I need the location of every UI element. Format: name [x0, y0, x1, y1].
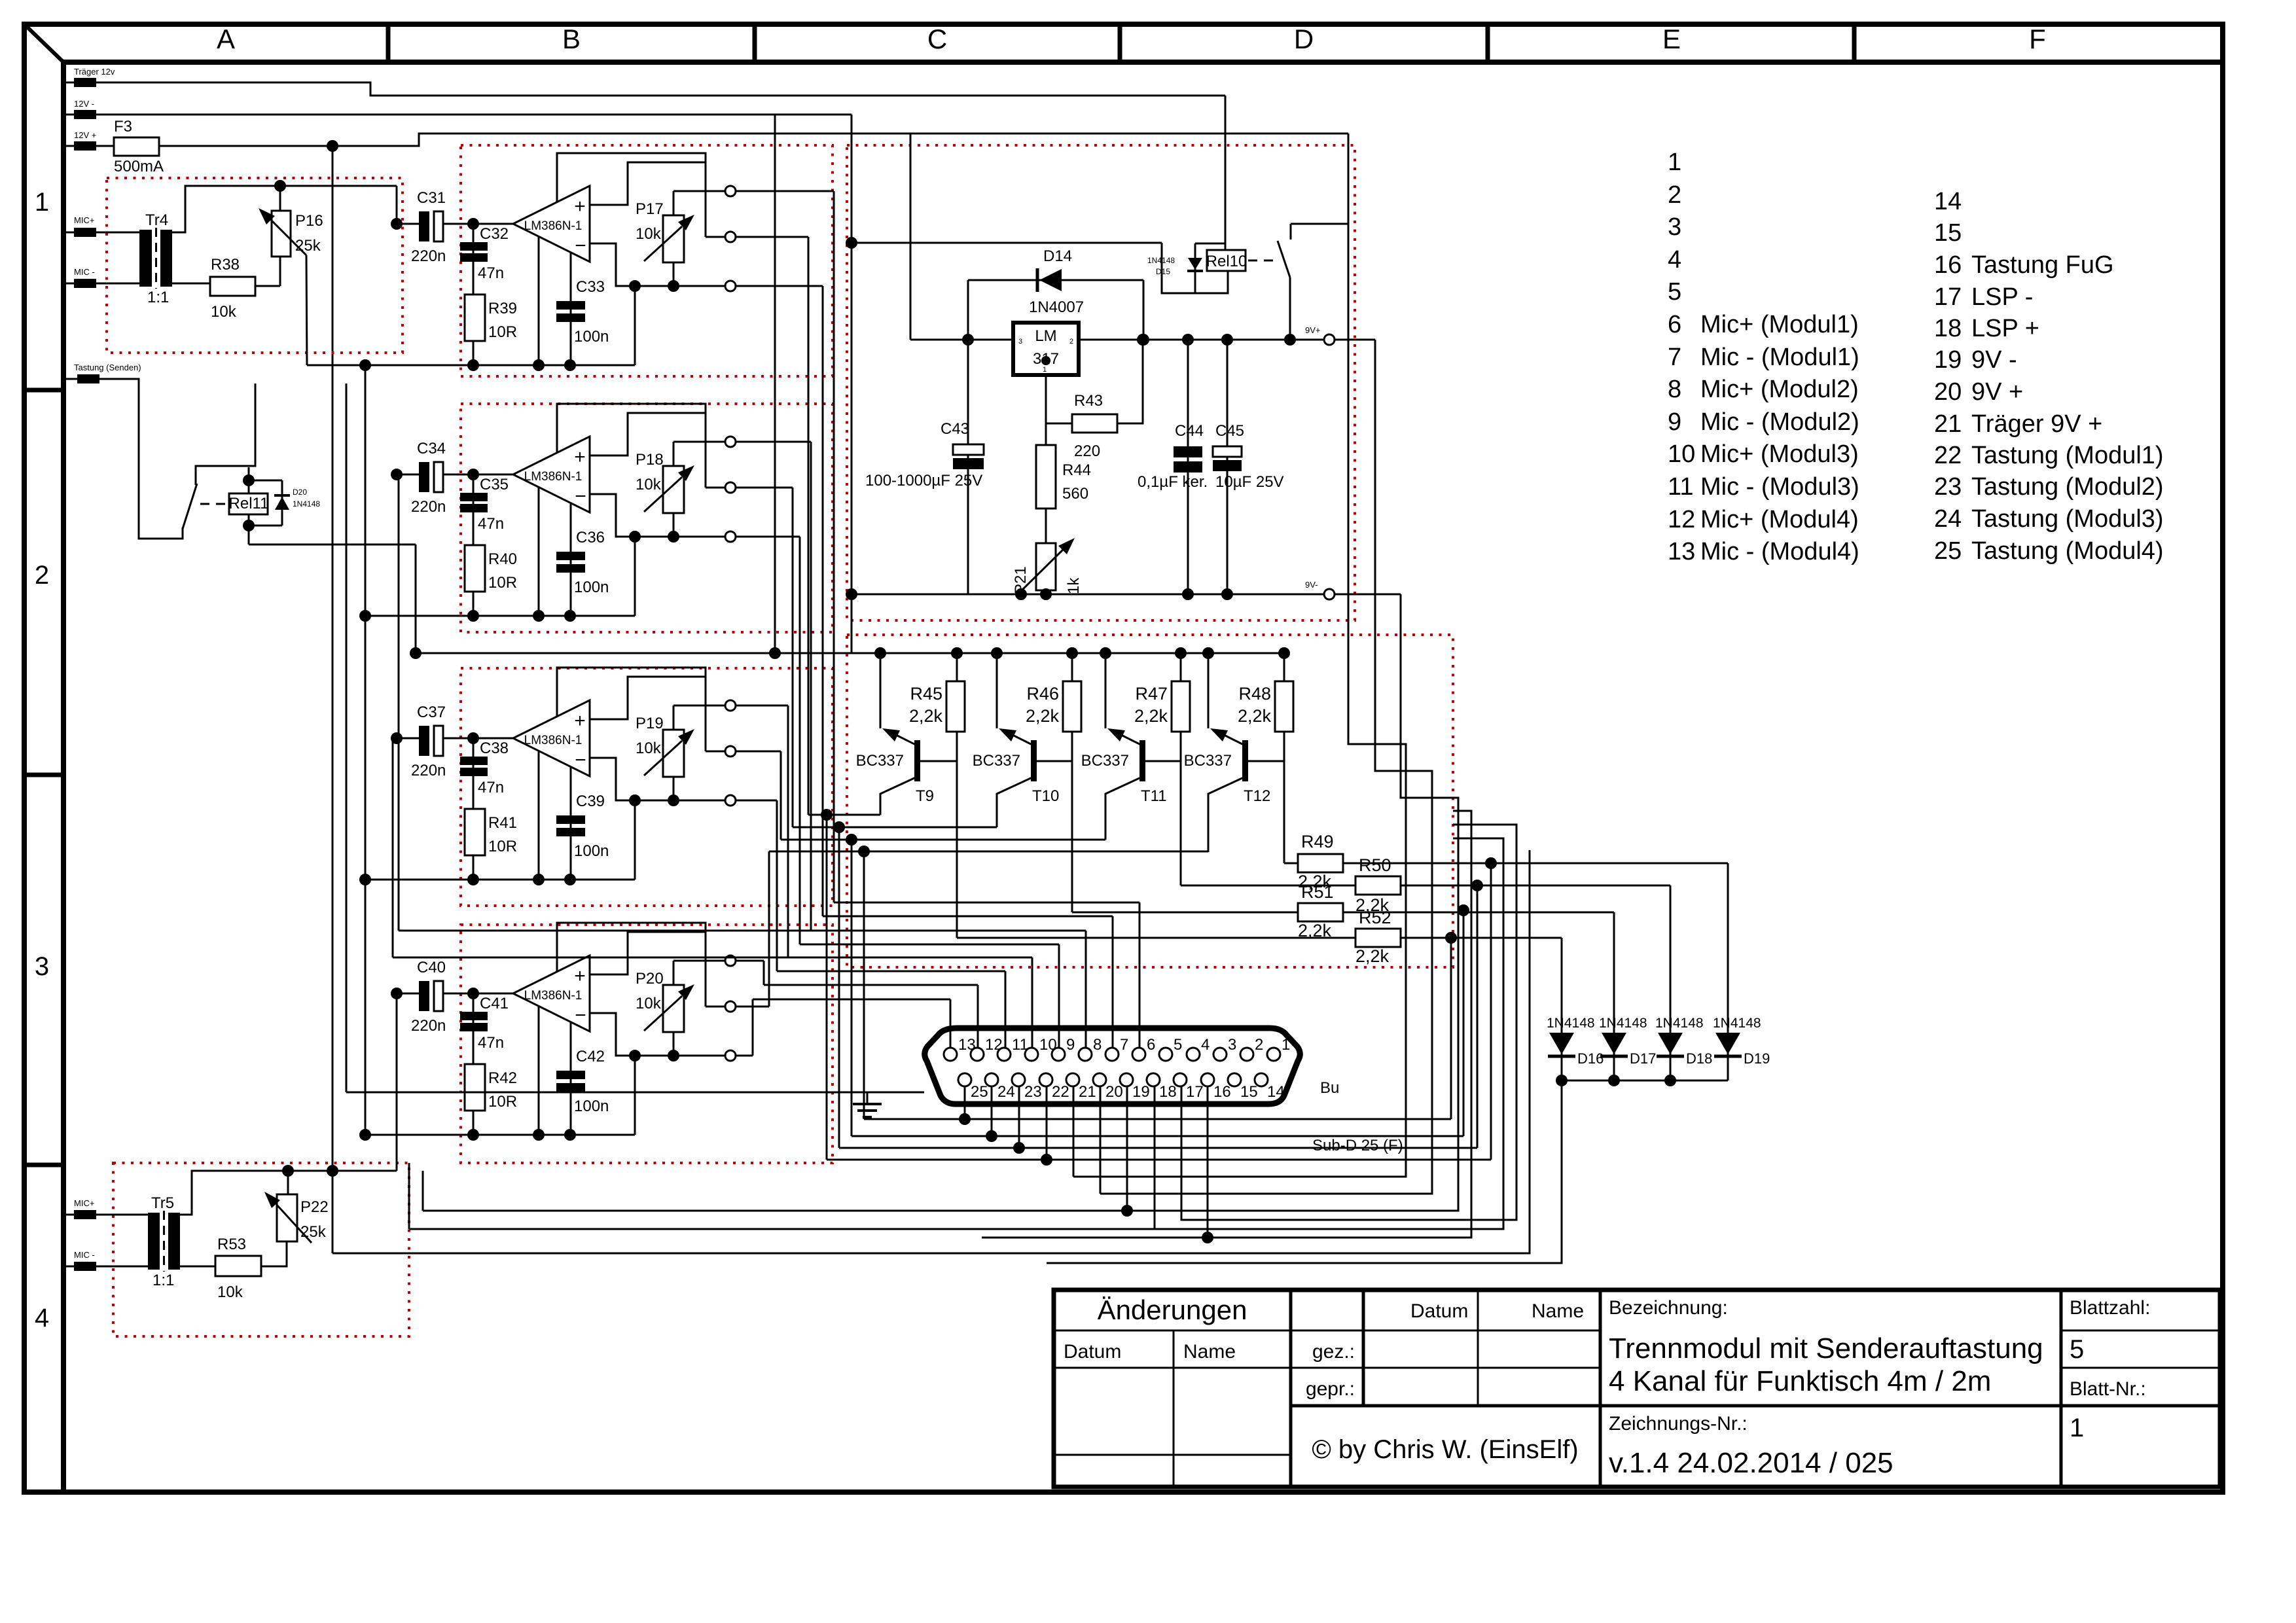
svg-text:Rel10: Rel10 [1206, 253, 1247, 270]
svg-text:D17: D17 [1630, 1050, 1656, 1067]
svg-text:24: 24 [1934, 505, 1962, 533]
drawing frame inner border (label band) [63, 60, 2223, 65]
wire fan output 5 vertical [787, 705, 789, 957]
svg-text:14: 14 [1934, 188, 1962, 215]
capacitor C42 [556, 1071, 585, 1079]
wire D15 bottom [1194, 266, 1196, 293]
svg-text:Bezeichnung:: Bezeichnung: [1609, 1297, 1728, 1319]
svg-text:10: 10 [1668, 440, 1695, 468]
emitter arrow T9 [897, 736, 916, 745]
svg-text:Name: Name [1532, 1300, 1584, 1322]
svg-text:9V +: 9V + [1971, 378, 2023, 406]
wire rail to R45 [956, 653, 958, 681]
svg-text:1: 1 [1282, 1036, 1290, 1054]
svg-text:Mic+ (Modul3): Mic+ (Modul3) [1700, 440, 1859, 468]
row divider 1 [24, 773, 63, 777]
node Rel11 coil bottom [243, 520, 255, 531]
svg-text:23: 23 [1024, 1083, 1042, 1101]
wire C37 to amp input [443, 738, 513, 740]
diode D16 1N4148 [1561, 938, 1563, 1080]
svg-text:P22: P22 [300, 1198, 329, 1216]
red dotted box amplifier module 3 [461, 668, 833, 906]
svg-text:1: 1 [1668, 149, 1681, 176]
wire fan output 7 vertical [763, 961, 765, 985]
svg-text:12V +: 12V + [74, 130, 96, 140]
wire fan output 4 pin drop [1058, 944, 1060, 1048]
wire P20 top lead [673, 961, 675, 985]
wire C44 vertical [1187, 340, 1189, 594]
diode D19 1N4148 [1727, 863, 1729, 1080]
svg-text:21: 21 [1079, 1083, 1096, 1101]
svg-text:4: 4 [35, 1304, 49, 1332]
svg-text:24: 24 [997, 1083, 1015, 1101]
wire pin20 vertical [1100, 1086, 1102, 1194]
wire R49 to D19 [1343, 863, 1728, 865]
node C45 bottom [1221, 588, 1233, 600]
wire Tr4 secondary top [172, 186, 397, 232]
wire module4 output B vertical [705, 961, 707, 1007]
wire fan output 1 horizontal [736, 190, 834, 192]
pin 24 Sub-D [985, 1073, 998, 1086]
svg-text:Trennmodul mit Senderauftastun: Trennmodul mit Senderauftastung [1609, 1332, 2043, 1364]
wire module4 minus line [590, 1013, 725, 1056]
capacitor C35 [460, 493, 488, 501]
pin 11 Sub-D [997, 1048, 1011, 1061]
wire rail to R48 [1283, 653, 1285, 681]
terminal 9V- [1324, 589, 1335, 599]
svg-text:P17: P17 [636, 200, 664, 218]
pin 16 Sub-D [1201, 1073, 1214, 1086]
wire Rel11 lever bottom [182, 527, 184, 539]
pin 21 Sub-D [1066, 1073, 1079, 1086]
svg-text:Rel11: Rel11 [229, 495, 269, 512]
wire module4 top feedback [557, 923, 706, 972]
wire R50 to D18 [1401, 885, 1670, 887]
wire left bus 625 vertical [408, 1163, 410, 1229]
svg-text:LM386N-1: LM386N-1 [524, 470, 583, 484]
wire module4 plus input [590, 932, 706, 974]
wire transistor supply rail [852, 652, 1284, 654]
node rail module1 x823 [533, 359, 545, 371]
wire P18 bottom lead [673, 513, 675, 537]
svg-text:47n: 47n [478, 1034, 504, 1052]
wire module2 C-branch vertical [473, 474, 475, 616]
node rail R46 [1066, 647, 1078, 659]
wire fan output 7 to pin [764, 984, 978, 986]
svg-text:R39: R39 [488, 300, 517, 317]
fuse F3 [114, 137, 159, 156]
wire Traeger 9V+ to pin 21 [1073, 224, 1406, 1177]
svg-text:B: B [562, 24, 581, 54]
wire module2 ground rail [365, 615, 635, 617]
wire R52 to D16 [1401, 937, 1562, 939]
svg-text:BC337: BC337 [856, 752, 904, 770]
svg-text:gez.:: gez.: [1312, 1341, 1355, 1363]
svg-text:Zeichnungs-Nr.:: Zeichnungs-Nr.: [1609, 1413, 1748, 1435]
terminal MIC- (row1) [74, 279, 96, 288]
svg-text:R43: R43 [1074, 392, 1103, 410]
wire fan output 4 horizontal [736, 536, 800, 538]
svg-text:Mic - (Modul1): Mic - (Modul1) [1700, 344, 1859, 371]
node rail module1 x871 [564, 359, 576, 371]
svg-text:Blatt-Nr.:: Blatt-Nr.: [2070, 1378, 2146, 1400]
potentiometer P21 [1036, 543, 1056, 590]
svg-text:23: 23 [1934, 473, 1962, 501]
wire R46 to base [1071, 732, 1073, 761]
wire bottom long run x508 [332, 850, 1530, 1253]
svg-text:T11: T11 [1141, 787, 1167, 805]
wire C36 vertical [570, 503, 572, 616]
node R43/9V+ [1137, 334, 1149, 346]
wire fan output 3 horizontal [736, 441, 811, 443]
resistor R38 [210, 277, 255, 296]
wire Tastung module2 bottom run [839, 1147, 1477, 1149]
svg-text:F3: F3 [114, 118, 132, 135]
svg-text:1k: 1k [1065, 577, 1083, 594]
wire fan output 4 to pin [800, 944, 1059, 946]
diode D15 1N4148 [1194, 243, 1196, 260]
svg-text:100n: 100n [574, 1097, 609, 1115]
wire R47 to base [1180, 732, 1182, 761]
wire fan output 2 horizontal [736, 285, 823, 287]
svg-text:2,2k: 2,2k [1026, 706, 1060, 726]
svg-text:16: 16 [1213, 1083, 1231, 1101]
wire T12 base line down to R49 [1283, 761, 1285, 863]
connector module4 pin A [725, 955, 736, 966]
svg-text:C31: C31 [417, 189, 446, 207]
node Tastung module2 [833, 821, 845, 833]
wire P17 top lead [673, 191, 675, 215]
wire module1 minus to rail [634, 286, 636, 365]
wire fan output 8 vertical [752, 999, 754, 1056]
connector module1 pin C [725, 281, 736, 291]
svg-text:16: 16 [1934, 251, 1962, 279]
node pin19 run [1121, 1205, 1133, 1217]
resistor R45 2,2k [946, 681, 965, 732]
resistor R40 [465, 545, 485, 592]
wire collector T11 [1105, 777, 1141, 840]
wire pin23 vertical [1018, 1086, 1020, 1148]
svg-text:−: − [575, 486, 586, 507]
wire 12V- vertical feed [851, 115, 853, 653]
diode D18 1N4148 [1670, 885, 1672, 1080]
svg-text:C42: C42 [576, 1048, 605, 1065]
svg-text:Tastung (Modul4): Tastung (Modul4) [1971, 537, 2164, 565]
resistor R53 [215, 1256, 261, 1276]
wire module2 output A [673, 441, 725, 443]
wire up to R49 line [1490, 863, 1492, 1160]
svg-text:25: 25 [1934, 537, 1962, 565]
terminal Träger 12v [74, 78, 96, 87]
svg-text:8: 8 [1668, 376, 1681, 403]
node diode bus [1664, 1075, 1676, 1086]
svg-text:47n: 47n [478, 779, 504, 796]
wire pin21 vertical [1073, 1086, 1075, 1177]
svg-text:7: 7 [1120, 1036, 1128, 1054]
node rail R47 [1175, 647, 1187, 659]
wire to R50 [1181, 885, 1355, 887]
svg-text:220n: 220n [411, 1017, 446, 1035]
wire R44 to P21 [1045, 508, 1047, 543]
pin 10 Sub-D [1025, 1048, 1038, 1061]
wire rail to R47 [1180, 653, 1182, 681]
wire module1 amp pin to rail [538, 237, 540, 365]
node Tastung module4 [858, 846, 870, 857]
emitter arrow T12 [1225, 736, 1244, 745]
switch lever Rel11 [183, 484, 197, 529]
wire P16 bottom lead [279, 257, 281, 286]
wire module2 pinB vertical [792, 488, 794, 827]
wire emitter T9 to rail [880, 653, 882, 728]
wire MIC- to Tr4 [63, 283, 141, 285]
wire module1 ground rail [307, 365, 635, 366]
wire fan output 1 vertical [833, 191, 835, 902]
wire module1 pinB out [736, 236, 808, 238]
svg-text:2,2k: 2,2k [1134, 706, 1168, 726]
wire module2 minus line [590, 494, 725, 537]
svg-text:10R: 10R [488, 838, 517, 855]
node rail module3 x558 [359, 874, 371, 885]
svg-text:C34: C34 [417, 440, 446, 457]
relay Rel11 [229, 493, 268, 514]
pin 23 Sub-D [1012, 1073, 1025, 1086]
capacitor C32 [460, 242, 488, 251]
wire base T10 [1037, 760, 1072, 762]
pin 6 Sub-D [1132, 1048, 1145, 1061]
wire Mic+ Modul2 horizontal [399, 930, 811, 932]
wire module1 output A [673, 190, 725, 192]
svg-text:3: 3 [35, 952, 49, 981]
pin 4 Sub-D [1187, 1048, 1200, 1061]
wire Tastung module3 bottom run [852, 1135, 1463, 1137]
wire rail bus vertical [365, 365, 367, 1135]
node module3 minus junction 2 [668, 794, 679, 806]
svg-text:9V+: 9V+ [1305, 325, 1321, 335]
svg-text:+: + [574, 710, 586, 732]
pin dot LM317 [1041, 356, 1050, 365]
svg-text:−: − [575, 1005, 586, 1026]
diode D20 1N4148 [281, 480, 283, 526]
svg-text:Änderungen: Änderungen [1098, 1294, 1247, 1325]
wire module2 pinB out [736, 487, 793, 489]
svg-text:220n: 220n [411, 498, 446, 516]
svg-text:Datum: Datum [1410, 1300, 1468, 1322]
node P21 bottom [1040, 588, 1052, 600]
wire collector T12 [1208, 777, 1244, 852]
wire module1 output B vertical [705, 191, 707, 237]
capacitor C38 [460, 757, 488, 765]
svg-text:10k: 10k [636, 476, 662, 493]
svg-text:Bu: Bu [1320, 1079, 1339, 1097]
svg-text:Mic+ (Modul4): Mic+ (Modul4) [1700, 506, 1859, 533]
capacitor C39 [556, 815, 585, 824]
wire fan output 8 to pin [753, 999, 950, 1001]
wire up to R51 line [1463, 910, 1465, 1136]
wire pin24 vertical [991, 1086, 993, 1136]
wire to R52 [957, 937, 1355, 939]
wire D14 branch [968, 279, 1143, 281]
transistor T10 BC337 [1031, 740, 1037, 781]
wire switch output to 9V+ node [1289, 277, 1291, 340]
wire module3 C-branch vertical [473, 738, 475, 880]
potentiometer P22 [277, 1194, 297, 1241]
svg-text:5: 5 [2070, 1335, 2084, 1364]
svg-text:10k: 10k [211, 303, 237, 321]
svg-text:9: 9 [1668, 408, 1681, 436]
svg-text:A: A [217, 24, 235, 54]
wire fan output 6 pin drop [1005, 971, 1007, 1048]
svg-text:22: 22 [1052, 1083, 1069, 1101]
wire Tastung module4 bottom run [864, 1118, 1451, 1120]
wire base T12 [1248, 760, 1284, 762]
capacitor C36 [556, 552, 585, 560]
terminal MIC+ (row4) [74, 1210, 96, 1219]
terminal 12V- [74, 110, 96, 119]
svg-text:1N4148: 1N4148 [1147, 256, 1175, 265]
capacitor C44 [1174, 446, 1202, 457]
wire regulator input vertical [910, 134, 912, 340]
wire fan output 2 to pin [823, 916, 1113, 918]
svg-text:C37: C37 [417, 704, 446, 721]
wire 9V- rail [852, 594, 1324, 596]
wire module1 pinB vertical [808, 237, 810, 815]
node R50 tap [1471, 880, 1483, 891]
svg-text:Tastung (Modul3): Tastung (Modul3) [1971, 505, 2164, 533]
transformer Tr5 [148, 1213, 160, 1270]
wire module3 ground rail [365, 879, 635, 881]
op-amp U3 LM386N-1 [513, 700, 590, 776]
wire R38 to P16 [255, 285, 280, 287]
resistor R48 2,2k [1275, 681, 1293, 732]
node rail R45 [951, 647, 963, 659]
svg-text:13: 13 [1668, 538, 1695, 565]
wire left bus 625 [409, 1228, 1155, 1230]
resistor R52 2,2k [1355, 929, 1401, 947]
wire module1 output B [706, 236, 725, 238]
wire module3 minus to rail [634, 800, 636, 880]
svg-text:F: F [2029, 24, 2046, 54]
node rail module3 x823 [533, 874, 545, 885]
wire 9V- to pin 19 and left bus [423, 594, 1458, 1211]
transistor T9 BC337 [914, 740, 920, 781]
svg-text:10R: 10R [488, 323, 517, 341]
node rail R48 [1278, 647, 1290, 659]
svg-text:Sub-D 25 (F): Sub-D 25 (F) [1312, 1137, 1403, 1154]
wire base T11 [1145, 760, 1181, 762]
wire T11 base line down to R50 [1180, 761, 1182, 885]
svg-text:10k: 10k [636, 995, 662, 1012]
wire C34 to amp input [443, 474, 513, 476]
node module3 minus junction 1 [629, 794, 641, 806]
wire pin16 run left extension [982, 1237, 1208, 1239]
node x635/transistor line [410, 647, 422, 659]
resistor R43 [1072, 414, 1117, 433]
wire relay supply rail [852, 242, 1162, 244]
svg-text:R52: R52 [1359, 908, 1391, 927]
capacitor C45 (electrolytic) [1213, 446, 1242, 457]
wire Rel11 to D20 bottom [249, 525, 282, 527]
svg-text:MIC -: MIC - [74, 1250, 95, 1260]
node 12V-/9V- rail [846, 588, 857, 600]
wire module3 pinB vertical [780, 751, 782, 840]
node rail module3 x871 [564, 874, 576, 885]
svg-text:2,2k: 2,2k [1355, 946, 1390, 966]
wire fan output 6 vertical [776, 800, 778, 971]
pin 9 Sub-D [1052, 1048, 1065, 1061]
svg-text:18: 18 [1934, 315, 1962, 342]
connector module2 pin C [725, 531, 736, 542]
wire fan output 8 horizontal [736, 1055, 753, 1057]
svg-text:Mic - (Modul4): Mic - (Modul4) [1700, 538, 1859, 565]
wire module1 top feedback [557, 153, 706, 202]
pin 19 Sub-D [1120, 1073, 1133, 1086]
wire module4 pinB out [736, 1006, 769, 1008]
wire MIC- to Tr5 [63, 1266, 148, 1268]
wire left bus 646 [422, 1171, 424, 1211]
node C44 bottom [1182, 588, 1194, 600]
svg-text:15: 15 [1934, 219, 1962, 247]
node C44 top [1182, 334, 1194, 346]
wire module3 pinB out [736, 751, 781, 753]
svg-text:R49: R49 [1301, 832, 1334, 851]
node 12V- to relay rail [846, 237, 857, 249]
wire P19 bottom lead [673, 777, 675, 800]
svg-text:4: 4 [1668, 246, 1681, 274]
wire Tastung module3 down [851, 840, 853, 1136]
column divider 1 [753, 24, 757, 62]
wire rail to R46 [1071, 653, 1073, 681]
node x1184 rail [769, 647, 781, 659]
wire fan output 1 to pin [834, 902, 1139, 904]
pin 5 Sub-D [1159, 1048, 1172, 1061]
wire C42 vertical [570, 1022, 572, 1135]
wire module2 output B [706, 487, 725, 489]
svg-text:T10: T10 [1032, 787, 1059, 805]
node module3 C-branch [467, 732, 479, 744]
node pin24 junction [986, 1130, 997, 1142]
wire Mic+ Modul2 vertical [398, 474, 400, 931]
wire Tr4 out to C31 [396, 186, 398, 224]
svg-text:4 Kanal für Funktisch 4m / 2m: 4 Kanal für Funktisch 4m / 2m [1609, 1365, 1991, 1397]
wire module1 input left [397, 223, 420, 225]
node rail module3 x723 [467, 874, 479, 885]
svg-text:2: 2 [1255, 1036, 1263, 1054]
wire Rel11 coil top [248, 467, 250, 493]
resistor R49 2,2k [1298, 854, 1343, 872]
svg-text:MIC -: MIC - [74, 267, 95, 277]
wire module3 plus input [590, 677, 706, 719]
node R52 tap [1445, 932, 1457, 944]
wire fan output 5 horizontal [736, 705, 788, 707]
pin 20 Sub-D [1093, 1073, 1106, 1086]
node D14 right [1138, 334, 1149, 346]
node pin25 junction [959, 1113, 971, 1125]
svg-text:LSP +: LSP + [1971, 315, 2039, 342]
wire Tr4 secondary bottom [172, 283, 210, 285]
wiper arrow P16 [271, 220, 306, 255]
svg-text:Tastung (Modul1): Tastung (Modul1) [1971, 442, 2164, 469]
potentiometer P20 [663, 985, 684, 1032]
svg-text:25k: 25k [300, 1223, 327, 1241]
wire P21 bottom [1045, 590, 1047, 594]
wire 12V- bus [63, 114, 852, 116]
svg-text:+: + [574, 446, 586, 468]
red dotted box Tr5 module [113, 1163, 409, 1336]
wire module2 amp pin to rail [538, 488, 540, 616]
svg-text:Mic+ (Modul1): Mic+ (Modul1) [1700, 311, 1859, 338]
node pin16 run [1202, 1232, 1213, 1243]
wire fan output 6 to pin [777, 971, 1005, 972]
